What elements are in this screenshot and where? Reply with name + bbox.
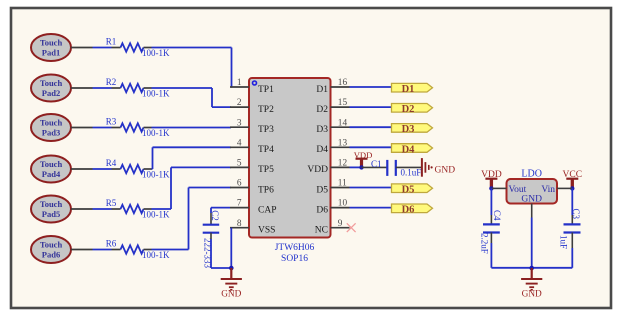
svg-text:R2: R2	[106, 77, 117, 87]
svg-text:TP1: TP1	[258, 85, 274, 95]
svg-text:D6: D6	[316, 205, 328, 215]
svg-text:TP3: TP3	[258, 125, 274, 135]
svg-text:14: 14	[338, 118, 348, 128]
svg-text:D4: D4	[402, 144, 416, 155]
svg-text:TP2: TP2	[258, 105, 274, 115]
svg-text:C3: C3	[571, 209, 581, 220]
svg-text:Pad4: Pad4	[42, 169, 61, 179]
svg-text:10: 10	[338, 199, 348, 209]
svg-text:100-1K: 100-1K	[142, 48, 170, 58]
svg-text:NC: NC	[315, 226, 328, 236]
svg-text:TP5: TP5	[258, 165, 274, 175]
svg-text:100-1K: 100-1K	[142, 170, 170, 180]
svg-text:D3: D3	[402, 124, 415, 135]
svg-text:3: 3	[237, 118, 242, 128]
svg-text:1: 1	[237, 78, 242, 88]
svg-text:Touch: Touch	[40, 37, 63, 47]
svg-text:R4: R4	[106, 158, 117, 168]
svg-text:16: 16	[338, 78, 348, 88]
svg-text:Pad5: Pad5	[42, 209, 60, 219]
svg-text:C2: C2	[210, 210, 220, 221]
svg-text:D5: D5	[316, 185, 328, 195]
svg-text:CAP: CAP	[258, 205, 276, 215]
svg-text:Pad6: Pad6	[42, 249, 60, 259]
svg-text:8: 8	[237, 219, 242, 229]
svg-text:VDD: VDD	[307, 165, 328, 175]
svg-text:R6: R6	[106, 238, 117, 248]
svg-text:D1: D1	[402, 84, 415, 95]
svg-text:TP6: TP6	[258, 185, 274, 195]
svg-text:Vout: Vout	[509, 185, 527, 195]
svg-text:4: 4	[237, 138, 242, 148]
svg-text:100-1K: 100-1K	[142, 128, 170, 138]
svg-text:11: 11	[338, 179, 347, 189]
svg-text:6: 6	[237, 179, 242, 189]
svg-text:100-1K: 100-1K	[142, 210, 170, 220]
svg-text:100-1K: 100-1K	[142, 89, 170, 99]
svg-text:D5: D5	[402, 185, 415, 196]
svg-text:LDO: LDO	[521, 168, 542, 179]
svg-text:7: 7	[237, 199, 242, 209]
svg-text:SOP16: SOP16	[281, 254, 308, 264]
svg-text:R1: R1	[106, 36, 117, 46]
svg-text:D3: D3	[316, 125, 328, 135]
svg-text:Touch: Touch	[40, 239, 63, 249]
svg-text:Pad3: Pad3	[42, 127, 60, 137]
svg-text:VSS: VSS	[258, 226, 275, 236]
svg-text:5: 5	[237, 159, 242, 169]
svg-text:13: 13	[338, 138, 348, 148]
svg-text:D2: D2	[402, 104, 415, 115]
svg-text:Touch: Touch	[40, 199, 63, 209]
svg-text:C4: C4	[492, 210, 502, 221]
svg-text:GND: GND	[435, 166, 456, 176]
svg-text:R5: R5	[106, 198, 117, 208]
svg-text:2: 2	[237, 98, 242, 108]
svg-text:100-1K: 100-1K	[142, 250, 170, 260]
svg-text:VDD: VDD	[354, 150, 373, 160]
svg-text:2.2uF: 2.2uF	[479, 233, 489, 254]
svg-text:15: 15	[338, 98, 348, 108]
svg-text:JTW6H06: JTW6H06	[275, 243, 315, 253]
svg-text:GND: GND	[221, 289, 241, 299]
svg-text:C1: C1	[371, 159, 382, 169]
svg-text:D2: D2	[316, 105, 328, 115]
svg-text:Touch: Touch	[40, 117, 63, 127]
svg-text:D4: D4	[316, 145, 328, 155]
svg-text:Vin: Vin	[541, 185, 555, 195]
svg-text:1uF: 1uF	[558, 235, 568, 249]
svg-text:Pad1: Pad1	[42, 47, 60, 57]
svg-text:12: 12	[338, 159, 348, 169]
svg-text:9: 9	[338, 219, 343, 229]
svg-text:GND: GND	[521, 195, 542, 205]
svg-text:Pad2: Pad2	[42, 88, 60, 98]
svg-text:0.1uF: 0.1uF	[401, 168, 422, 178]
svg-text:R3: R3	[106, 116, 117, 126]
svg-text:D6: D6	[402, 205, 415, 216]
svg-text:TP4: TP4	[258, 145, 274, 155]
svg-text:D1: D1	[316, 85, 328, 95]
svg-text:Touch: Touch	[40, 78, 63, 88]
svg-text:GND: GND	[522, 289, 542, 299]
svg-text:Touch: Touch	[40, 159, 63, 169]
